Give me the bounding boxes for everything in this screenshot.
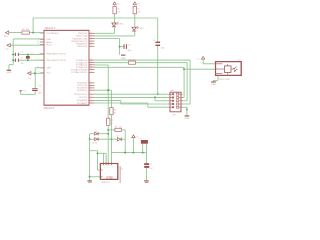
- svg-text:15: 15: [90, 35, 92, 37]
- svg-text:19: 19: [90, 45, 92, 47]
- svg-text:PB2(SS/OC1B): PB2(SS/OC1B): [72, 38, 87, 40]
- svg-text:X1: X1: [121, 169, 123, 171]
- svg-text:R3: R3: [115, 126, 117, 128]
- svg-text:22p: 22p: [21, 63, 24, 65]
- svg-text:PN61729: PN61729: [101, 182, 110, 183]
- svg-text:3: 3: [90, 84, 91, 86]
- svg-text:2: 2: [90, 82, 91, 84]
- svg-text:2k2: 2k2: [133, 59, 136, 61]
- svg-text:ISP: ISP: [173, 115, 177, 117]
- svg-text:L1: L1: [141, 138, 143, 140]
- svg-text:24: 24: [90, 61, 92, 63]
- svg-text:Q1: Q1: [31, 53, 33, 55]
- svg-text:PB0(ICP): PB0(ICP): [78, 33, 87, 35]
- svg-text:25: 25: [90, 63, 92, 65]
- svg-text:GND: GND: [121, 58, 126, 60]
- svg-text:13: 13: [90, 102, 92, 104]
- svg-text:26: 26: [90, 66, 92, 68]
- svg-text:C2: C2: [21, 51, 23, 53]
- svg-text:R1: R1: [117, 8, 119, 10]
- svg-text:PD4(XCK/T0): PD4(XCK/T0): [74, 94, 87, 96]
- svg-text:R6: R6: [22, 29, 24, 31]
- svg-text:GND: GND: [6, 72, 11, 74]
- svg-text:PD3(INT1): PD3(INT1): [77, 90, 88, 92]
- svg-text:C1: C1: [150, 163, 152, 165]
- svg-text:VCC: VCC: [137, 3, 141, 5]
- svg-text:PD0(RXD): PD0(RXD): [77, 83, 87, 85]
- svg-text:PD5(T1): PD5(T1): [79, 97, 87, 99]
- svg-text:VCC: VCC: [136, 137, 140, 139]
- svg-text:PB4(MISO): PB4(MISO): [76, 44, 87, 46]
- svg-text:MEGA8-P: MEGA8-P: [44, 107, 55, 110]
- svg-text:PC6(RESET): PC6(RESET): [46, 33, 59, 35]
- svg-text:17: 17: [90, 40, 92, 42]
- svg-text:23: 23: [90, 59, 92, 61]
- svg-text:R5: R5: [114, 109, 116, 111]
- svg-text:5: 5: [90, 89, 91, 91]
- svg-text:D1: D1: [95, 131, 97, 133]
- svg-text:GND: GND: [46, 68, 51, 70]
- svg-text:LED1: LED1: [119, 24, 123, 26]
- svg-text:21: 21: [37, 41, 39, 43]
- svg-text:16: 16: [90, 37, 92, 39]
- svg-text:10k: 10k: [26, 29, 29, 31]
- svg-text:IC2: IC2: [238, 59, 241, 61]
- svg-text:GND: GND: [23, 91, 27, 93]
- svg-text:C4: C4: [38, 86, 40, 88]
- svg-text:MEGA8-P: MEGA8-P: [45, 27, 56, 30]
- svg-text:1k5: 1k5: [119, 126, 122, 128]
- svg-text:PD1(TXD): PD1(TXD): [77, 85, 87, 87]
- svg-text:14: 14: [90, 32, 92, 34]
- svg-text:28: 28: [90, 71, 92, 73]
- svg-text:TSOP1738: TSOP1738: [219, 79, 231, 81]
- svg-text:27: 27: [90, 68, 92, 70]
- svg-text:VCC: VCC: [46, 73, 51, 75]
- svg-text:PD2(INT0): PD2(INT0): [77, 88, 88, 90]
- svg-text:+5V: +5V: [5, 49, 9, 51]
- svg-text:GND: GND: [184, 118, 189, 120]
- svg-text:GND: GND: [46, 39, 51, 41]
- svg-text:4u7: 4u7: [150, 168, 153, 170]
- svg-text:R2: R2: [137, 8, 139, 10]
- svg-text:PB3(MOSI/OC2): PB3(MOSI/OC2): [71, 41, 87, 43]
- svg-text:D2 3V6: D2 3V6: [92, 142, 97, 144]
- svg-text:+5V: +5V: [28, 78, 32, 80]
- svg-text:68: 68: [114, 113, 116, 115]
- svg-text:18: 18: [90, 42, 92, 44]
- svg-text:C6: C6: [128, 44, 130, 46]
- svg-text:RST: RST: [4, 36, 8, 38]
- svg-text:VCC: VCC: [117, 3, 121, 5]
- svg-text:11: 11: [90, 96, 92, 98]
- svg-text:R7: R7: [128, 59, 130, 61]
- svg-text:220: 220: [137, 12, 140, 14]
- svg-text:LED2: LED2: [139, 28, 143, 30]
- svg-text:220: 220: [117, 12, 120, 14]
- svg-text:100n: 100n: [128, 50, 132, 52]
- svg-text:VCC: VCC: [197, 59, 201, 61]
- svg-text:100n: 100n: [161, 47, 165, 49]
- svg-text:4: 4: [90, 87, 91, 89]
- svg-text:C5: C5: [153, 40, 155, 42]
- svg-text:PB5(SCK): PB5(SCK): [77, 46, 87, 48]
- svg-text:100n: 100n: [38, 93, 42, 95]
- svg-text:GND: GND: [211, 84, 216, 86]
- svg-text:C3: C3: [21, 57, 23, 59]
- svg-text:12: 12: [90, 99, 92, 101]
- svg-text:6: 6: [90, 93, 91, 95]
- svg-text:D3: D3: [117, 135, 119, 137]
